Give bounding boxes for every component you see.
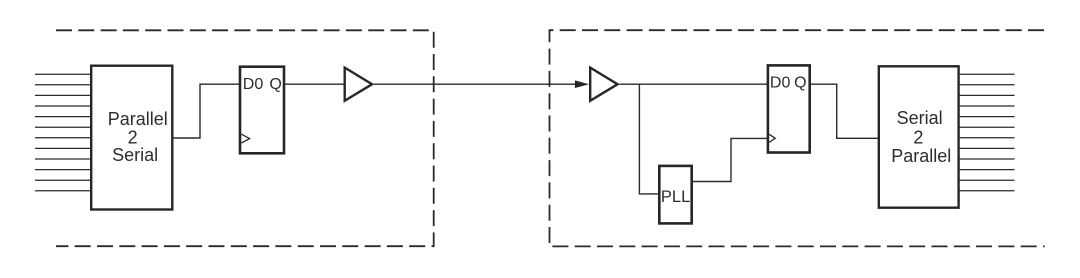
parallel input bus (12 lines) <box>35 74 91 191</box>
parallel output bus (12 lines) <box>959 74 1015 191</box>
receive buffer A2 (triangle) <box>590 68 617 101</box>
svg-text:D0: D0 <box>243 76 264 93</box>
serial-to-parallel converter U2 <box>879 66 959 207</box>
wire: branch from serial node down to PLL input <box>639 84 658 194</box>
transmitter chip boundary (dashed box, open on left) <box>56 30 434 246</box>
svg-text:PLL: PLL <box>661 188 690 206</box>
FF2 pin labels D0 Q <box>770 75 807 92</box>
wire: PLL recovered clock to FF2 clock input <box>693 138 768 181</box>
svg-text:Q: Q <box>269 76 281 93</box>
FF1 clock input symbol <box>241 134 249 143</box>
svg-text:D0: D0 <box>770 75 791 92</box>
wire: FF1 Q to transmit buffer A1 <box>285 83 345 85</box>
wire: A2 output to FF2 D input <box>620 83 768 85</box>
parallel-to-serial converter U1 <box>91 66 172 210</box>
wire: FF2 Q to S2P input <box>810 84 878 138</box>
FF1 pin labels D0 Q <box>243 76 282 93</box>
flip-flop FF2 <box>768 65 810 152</box>
svg-text:Q: Q <box>794 75 806 92</box>
svg-text:Serial: Serial <box>112 145 158 165</box>
svg-text:Serial: Serial <box>897 108 943 128</box>
arrowhead on serial line <box>575 80 589 88</box>
label: Parallel 2 Serial <box>108 109 168 165</box>
flip-flop FF1 <box>240 67 284 154</box>
transmit buffer A1 (triangle) <box>345 68 372 101</box>
wire: U1 serial output to FF1 D input <box>173 84 239 138</box>
label: Serial 2 Parallel <box>891 108 951 166</box>
wire: serial transmission line <box>374 83 576 85</box>
receiver chip boundary (dashed box, open on right) <box>550 30 1045 246</box>
svg-text:Parallel: Parallel <box>891 146 951 166</box>
FF2 clock input symbol <box>769 134 775 142</box>
PLL block <box>659 166 691 224</box>
svg-text:Parallel: Parallel <box>108 109 168 129</box>
svg-text:2: 2 <box>913 127 923 147</box>
